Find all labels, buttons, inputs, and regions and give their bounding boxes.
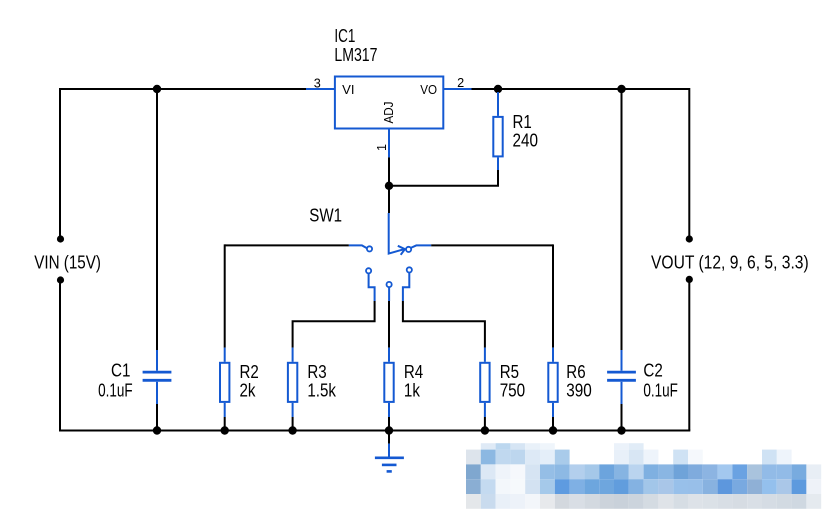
watermark mosaic [466, 443, 821, 509]
svg-text:R1: R1 [513, 112, 532, 132]
pin name ADJ (rotated) [382, 102, 396, 124]
pin 1 number label (rotated) [375, 144, 389, 151]
R3 value label 1.5k [307, 380, 336, 400]
switch SW1 bottom-right contact circle [407, 267, 412, 272]
resistor R5 bottom lead [484, 403, 486, 431]
IC1 LM317 regulator body [335, 77, 443, 129]
resistor R4 body [384, 363, 393, 402]
resistor R1 top lead [497, 92, 499, 116]
svg-text:1.5k: 1.5k [307, 380, 336, 400]
svg-text:R6: R6 [566, 362, 585, 382]
svg-text:750: 750 [500, 380, 526, 400]
wire ADJ node to R1 bottom [389, 170, 498, 186]
resistor R4 bottom lead [388, 403, 390, 431]
VOUT terminal dot lower [686, 276, 693, 283]
node VOUT label [651, 253, 809, 273]
capacitor C2 top wire [621, 89, 623, 371]
wire top rail VO to VOUT corner [472, 88, 690, 90]
svg-text:2: 2 [457, 76, 464, 90]
wire switch bottom-center contact to R4 column [388, 288, 390, 348]
R6 reference label [566, 362, 585, 382]
C1 value label 0.1uF [98, 380, 133, 400]
svg-text:0.1uF: 0.1uF [98, 380, 133, 400]
switch SW1 bottom-center contact circle [387, 282, 392, 287]
capacitor C1 top wire [156, 89, 158, 371]
switch SW1 left contact circle [367, 246, 372, 251]
switch SW1 bottom-left contact circle [366, 268, 371, 273]
IC1 reference label [334, 26, 355, 46]
R4 reference label [404, 362, 423, 382]
svg-text:390: 390 [566, 380, 592, 400]
R4 value label 1k [404, 380, 421, 400]
capacitor C1 bottom wire [156, 382, 158, 431]
svg-text:C1: C1 [111, 360, 130, 380]
svg-text:1: 1 [375, 144, 389, 151]
svg-text:2k: 2k [240, 380, 257, 400]
resistor R6 top lead [552, 348, 554, 362]
svg-text:C2: C2 [643, 360, 662, 380]
svg-text:R3: R3 [307, 362, 326, 382]
node VIN label [34, 253, 101, 273]
pin name VI [342, 83, 354, 97]
resistor R1 bottom lead [497, 157, 499, 170]
pin 3 wire stub [306, 88, 334, 90]
svg-text:SW1: SW1 [309, 206, 342, 226]
node junction top rail / C1 column [153, 85, 161, 93]
capacitor C1 plates [143, 372, 172, 380]
R5 value label 750 [500, 380, 526, 400]
wire switch bottom-left contact to R3 column [293, 273, 375, 347]
wire switch bottom-right contact to R5 column [403, 273, 485, 348]
wire top rail VIN to IC1 VI pin [60, 88, 306, 90]
resistor R2 body [220, 363, 229, 402]
pin 2 wire stub [444, 88, 472, 90]
svg-text:0.1uF: 0.1uF [643, 380, 678, 400]
resistor R1 body [493, 117, 502, 156]
resistor R5 top lead [484, 348, 486, 362]
capacitor C2 plates [607, 372, 636, 380]
VIN terminal dot lower [57, 276, 64, 283]
svg-text:VIN (15V): VIN (15V) [34, 253, 101, 273]
svg-text:R2: R2 [240, 362, 259, 382]
svg-text:VO: VO [420, 83, 437, 97]
pin 3 number label [314, 76, 321, 90]
capacitor C2 bottom wire [621, 382, 623, 431]
node junction bottom rail / R4 / ground [385, 426, 393, 434]
resistor R4 top lead [388, 348, 390, 362]
node junction bottom rail / R5 [481, 426, 489, 434]
node junction bottom rail / C2 [617, 426, 625, 434]
node junction ADJ [385, 182, 393, 190]
SW1 reference label [309, 206, 342, 226]
node junction top rail / C2 column [617, 85, 625, 93]
VIN terminal dot upper [57, 235, 64, 242]
resistor R3 body [288, 363, 297, 402]
R3 reference label [307, 362, 326, 382]
wire switch right contact to R6 column [411, 244, 554, 347]
svg-text:3: 3 [314, 76, 321, 90]
wire VOUT lower drop to bottom rail [688, 279, 690, 431]
switch SW1 wiper with arrow [398, 246, 405, 255]
wire bottom ground rail [59, 430, 690, 432]
resistor R6 body [548, 363, 557, 402]
C1 reference label [111, 360, 130, 380]
ground stub wire [388, 431, 390, 457]
R1 reference label [513, 112, 532, 132]
resistor R2 bottom lead [224, 403, 226, 431]
C2 value label 0.1uF [643, 380, 678, 400]
svg-text:VI: VI [342, 83, 354, 97]
C2 reference label [643, 360, 662, 380]
svg-text:VOUT (12, 9, 6, 5, 3.3): VOUT (12, 9, 6, 5, 3.3) [651, 253, 809, 273]
resistor R3 bottom lead [292, 403, 294, 431]
VOUT terminal dot upper [686, 235, 693, 242]
wire VIN lower drop to bottom rail [59, 280, 61, 431]
ground symbol [375, 458, 404, 472]
svg-text:IC1: IC1 [334, 26, 355, 46]
R6 value label 390 [566, 380, 592, 400]
svg-text:LM317: LM317 [334, 45, 377, 65]
resistor R3 top lead [292, 348, 294, 362]
R2 reference label [240, 362, 259, 382]
svg-text:1k: 1k [404, 380, 421, 400]
IC1 value label LM317 [334, 45, 377, 65]
node junction bottom rail / R3 [288, 426, 296, 434]
VIN drop wire [59, 88, 61, 239]
svg-text:240: 240 [513, 130, 539, 150]
node junction bottom rail / R2 [221, 426, 229, 434]
pin 2 number label [457, 76, 464, 90]
node junction bottom rail / R6 [549, 426, 557, 434]
resistor R6 bottom lead [552, 403, 554, 431]
node junction bottom rail / C1 [153, 426, 161, 434]
pin 1 wire stub [388, 129, 390, 157]
switch SW1 right contact circle [406, 247, 411, 252]
VOUT drop wire [688, 88, 690, 239]
wire switch left contact to R2 column [225, 244, 367, 347]
pin name VO [420, 83, 437, 97]
switch SW1 pole wire from ADJ node [389, 186, 405, 254]
R1 value label 240 [513, 130, 539, 150]
wire ADJ pin to ADJ node [388, 157, 390, 185]
R5 reference label [500, 362, 519, 382]
R2 value label 2k [240, 380, 257, 400]
svg-text:R4: R4 [404, 362, 423, 382]
resistor R5 body [480, 363, 489, 402]
svg-text:ADJ: ADJ [382, 102, 396, 124]
svg-text:R5: R5 [500, 362, 519, 382]
node junction top rail / R1 column [494, 85, 502, 93]
resistor R2 top lead [224, 348, 226, 362]
